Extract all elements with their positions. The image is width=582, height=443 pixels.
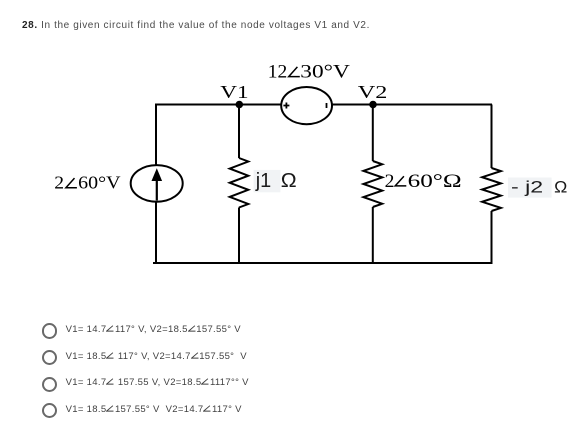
svg-text:Ω: Ω: [281, 170, 297, 192]
wire V2 branch lower: [372, 207, 374, 263]
current source 2∠60°V: [131, 165, 183, 202]
wire V1 branch lower: [238, 208, 240, 264]
svg-text:12: 12: [268, 62, 288, 83]
question text: [22, 21, 370, 31]
voltage source 12∠30°V: [281, 87, 332, 124]
answer option C: [41, 376, 43, 378]
label capacitor value -j2 Ω with highlight: [508, 178, 567, 198]
wire top rail: [155, 104, 492, 106]
resistor j1Ω zigzag: [230, 158, 249, 208]
svg-text:30°V: 30°V: [300, 62, 350, 83]
label current source value 2∠60°V: [54, 173, 120, 193]
label node V1: [220, 82, 248, 102]
svg-text:V1: V1: [220, 82, 248, 102]
wire right branch upper: [491, 105, 493, 169]
label node V2: [358, 82, 388, 102]
label voltage source value 12∠30°V: [268, 62, 350, 83]
wire left branch: [155, 105, 157, 264]
node V1 junction dot: [236, 101, 244, 109]
svg-text:Ω: Ω: [554, 178, 567, 197]
answer option B: [41, 349, 43, 351]
node V2 junction dot: [369, 101, 377, 109]
answer option A: [41, 322, 43, 324]
capacitor -j2Ω zigzag: [482, 168, 501, 211]
svg-text:2: 2: [54, 173, 64, 193]
resistor 2∠60°Ω zigzag: [363, 161, 382, 207]
label resistor value 2∠60°Ω: [385, 171, 462, 192]
svg-text:60°Ω: 60°Ω: [408, 171, 462, 192]
svg-text:j1: j1: [255, 170, 271, 192]
wire bottom rail: [153, 262, 493, 264]
svg-text:60°V: 60°V: [78, 173, 120, 193]
wire right branch lower: [491, 211, 493, 263]
wire V1 branch upper: [238, 105, 240, 159]
svg-text:2: 2: [385, 171, 395, 192]
svg-text:V2: V2: [358, 82, 388, 102]
answer option D: [41, 402, 43, 404]
label resistor value j1 Ω with highlight: [254, 170, 297, 192]
svg-text:- j2: - j2: [511, 178, 543, 197]
wire V2 branch upper: [372, 105, 374, 162]
